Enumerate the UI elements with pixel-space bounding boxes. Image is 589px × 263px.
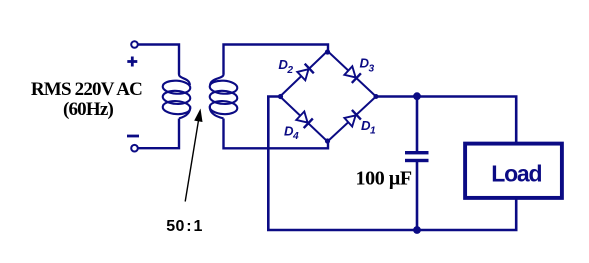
svg-text:D3: D3: [360, 56, 375, 75]
svg-text:D1: D1: [361, 118, 376, 137]
svg-text:D4: D4: [284, 123, 299, 142]
svg-text:RMS 220V AC: RMS 220V AC: [31, 79, 142, 100]
svg-text:D2: D2: [278, 57, 293, 76]
svg-text:100 μF: 100 μF: [356, 168, 412, 190]
svg-text:(60Hz): (60Hz): [63, 99, 114, 120]
svg-text:50:1: 50:1: [166, 218, 202, 235]
svg-text:Load: Load: [491, 160, 541, 186]
